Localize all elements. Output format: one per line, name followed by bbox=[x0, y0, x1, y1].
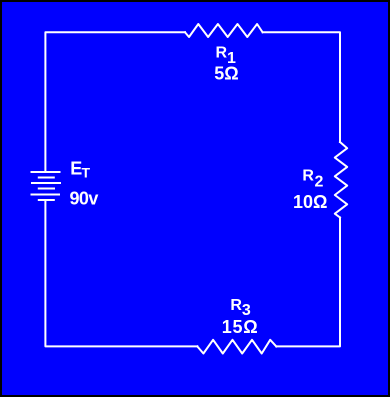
label R3 bbox=[230, 297, 251, 319]
label R1 bbox=[216, 44, 237, 67]
label R2 bbox=[302, 168, 323, 191]
wire bottom-left corner segment bbox=[45, 200, 197, 346]
label ET bbox=[70, 158, 90, 180]
svg-text:R: R bbox=[230, 297, 242, 314]
svg-text:T: T bbox=[82, 165, 91, 181]
resistor R3 bbox=[197, 340, 276, 354]
svg-text:5Ω: 5Ω bbox=[214, 63, 238, 83]
svg-text:10Ω: 10Ω bbox=[293, 192, 327, 212]
wire top-left corner segment bbox=[45, 32, 185, 171]
resistor R2 bbox=[335, 142, 347, 218]
svg-text:2: 2 bbox=[315, 173, 324, 190]
wire top-right corner segment bbox=[263, 32, 340, 142]
wire right-lower + bottom-right corner segment bbox=[276, 218, 340, 347]
battery ET bbox=[32, 172, 61, 200]
svg-text:90v: 90v bbox=[70, 189, 99, 209]
svg-text:R: R bbox=[216, 44, 228, 61]
svg-text:15Ω: 15Ω bbox=[222, 317, 259, 337]
resistor R1 bbox=[185, 24, 263, 37]
svg-text:R: R bbox=[302, 168, 314, 185]
svg-text:E: E bbox=[70, 158, 82, 178]
